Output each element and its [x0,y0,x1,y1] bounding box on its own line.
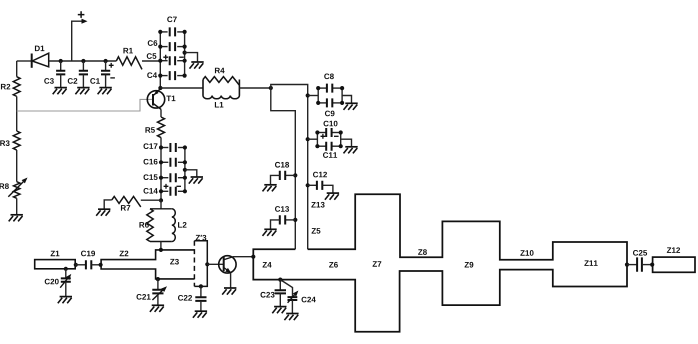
node Z3 top (R6L2) [159,248,163,252]
wire feed to C8C9 [308,95,319,97]
ground C14-C17 stack [189,177,203,184]
junction dots C8C9 [316,86,344,105]
ground C13 [263,229,277,236]
capacitor C10 (polarized) [321,121,339,139]
label Z10 [520,250,533,256]
label Z11 [584,260,597,266]
capacitor C5 (polarized) [147,53,184,65]
node Z11 output [625,263,629,267]
capacitor C1 (polarized) [90,61,115,88]
wire R6L2 to Z3 [160,242,162,250]
capacitor C14 (polarized) [143,184,181,196]
capacitor C25 [627,250,653,272]
wire top-left corner to D1 [17,60,32,62]
diode D1 [32,46,49,68]
ground C24 [284,314,298,321]
ground C3 [53,88,67,95]
node C1 tap [104,59,108,63]
ground C20 [58,297,72,304]
ground C23 [272,307,286,314]
junction dots C10C11 [315,130,343,148]
net label Z5 [312,228,321,234]
capacitor C17 [143,143,175,152]
capacitor C24 (trimmer) [280,280,315,314]
wire T2 emitter to ground [230,273,232,288]
microstrip Z1 [35,251,75,269]
ground C12 [325,193,339,200]
ground C10C11 [344,147,358,154]
capacitor C3 [44,61,65,88]
junction dots C4-C7 rails [158,30,187,78]
capacitor C6 [148,40,175,51]
wire R2 to R3 [16,96,18,131]
wire T2 collector to Z4 [233,256,254,258]
node Z2 input [99,263,103,267]
base wire to T1 [17,99,153,111]
microstrip Z12 (output) [653,247,695,272]
node Z12 input [650,263,654,267]
capacitor C8 [324,74,334,93]
inductor L1 [203,96,239,108]
capacitor C21 (trimmer) [136,279,167,305]
wire R4L1 to junction [239,87,270,89]
inductor L2 [150,209,187,242]
node Z4 input [251,255,255,259]
ground C22 [193,311,207,318]
microstrip resonator Z'3 [194,235,207,287]
wire R8 to ground [16,198,18,215]
node C18 tap [293,173,297,177]
resistor R2 [1,61,20,96]
node Z1 output [74,263,78,267]
capacitor C18 [271,162,296,185]
capacitor C22 [178,286,207,311]
microstrip filter outline Z4-Z11 [253,194,627,331]
power supply + arrow [72,11,88,61]
bypass rail C4-C7 [160,32,184,88]
resistor R5 [145,109,164,137]
coupling rail C14-C17 [161,138,185,201]
ground C18 [263,185,277,192]
wire junction down to C13-C18 rail [271,88,296,249]
wire collector node to R4 [160,87,203,89]
node main junction [269,86,273,90]
capacitor C20 (trimmer) [45,267,72,297]
node C2 tap [81,59,85,63]
node C12 tap [306,183,310,187]
capacitor C9 [325,98,335,116]
transistor T2 [219,256,236,273]
node C10C11 feed [306,137,310,141]
resistor R7 [104,196,161,210]
net label Z13 [311,202,324,208]
ground C1 [98,88,112,95]
ground R7 [96,209,110,216]
wire C10C11 to ground [341,139,352,147]
label Z7 [373,261,382,267]
label Z6 [329,262,338,268]
capacitor C7 [167,17,177,37]
wire R3 to R8 [16,150,18,182]
ground T2 emitter [222,288,236,295]
ground R8 [9,215,23,222]
rails C10 C11 [317,133,340,147]
wire R1 to C5 node [142,60,160,62]
capacitor C12 [308,172,333,193]
wire C stack to ground [185,53,198,62]
capacitor C16 [143,158,175,167]
capacitor C15 [143,173,175,182]
wire junction up-over to Z5 rail [271,85,308,250]
label Z4 [263,262,272,268]
resistor R6 [139,209,171,242]
wire C8C9 to ground [342,96,351,104]
junction dots C14-C17 rails [159,145,187,202]
microstrip Z2-Z3 taper [101,250,194,279]
node T1 collector [158,86,162,90]
node C13 tap [293,218,297,222]
resistor R3 [0,131,20,150]
capacitor C11 [323,142,337,158]
node Z'3 output [205,262,209,266]
node Z3 bottom (C21) [156,277,160,281]
node C3 tap [59,59,63,63]
ground C8C9 [344,103,358,110]
ground C4-C7 stack [190,62,204,69]
capacitor C4 [147,71,175,80]
node Z'3 bottom [199,284,203,288]
label Z8 [418,249,427,255]
wire feed to C10C11 [308,138,318,140]
rails C8 C9 [318,88,342,103]
wire C14-17 stack to ground [185,170,197,177]
transistor T1 [147,89,175,110]
node C23 C24 tap [278,278,282,282]
capacitor C2 [68,61,88,88]
ground C2 [75,88,89,95]
resistor R8 (variable) [0,178,28,199]
wire junction to R6L2 [160,200,162,208]
capacitor C23 [260,280,286,307]
node C8C9 feed [306,93,310,97]
capacitor C19 [75,251,101,270]
resistor R1 [116,48,142,70]
capacitor C13 [271,206,296,229]
label Z9 [465,262,474,268]
wire D1 to R1 (supply rail) [49,60,117,62]
ground C21 [150,305,164,312]
wire Z'3 to T2 base [207,263,223,265]
resistor R4 [203,68,239,96]
